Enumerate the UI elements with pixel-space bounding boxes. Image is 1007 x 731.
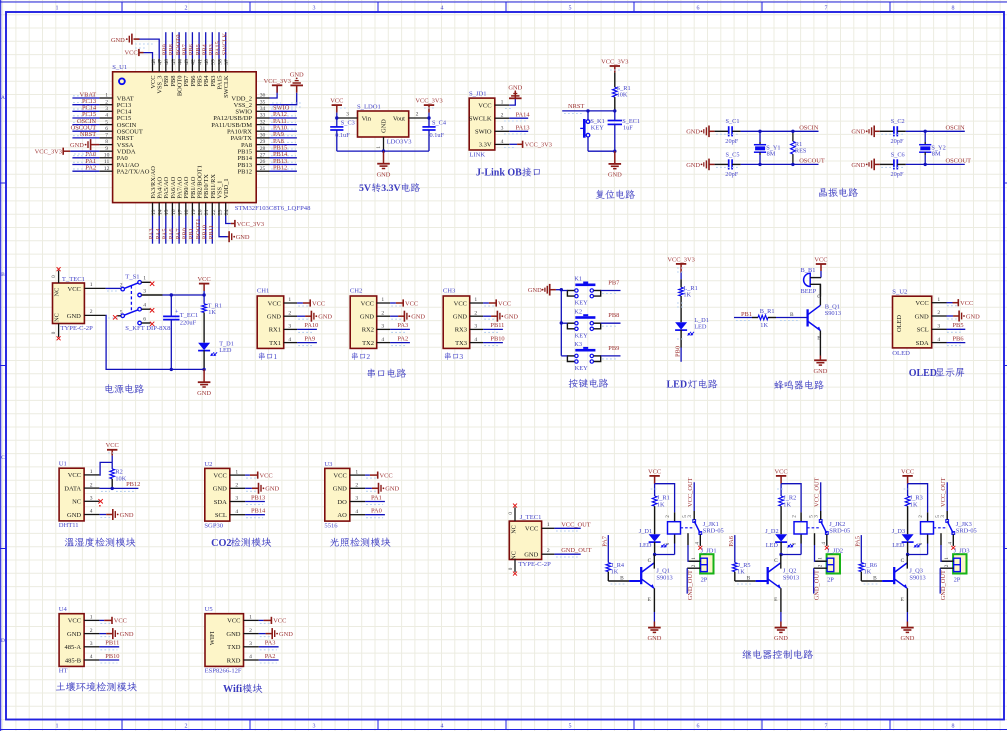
title light sensor module — [330, 538, 391, 547]
power flag VCC at U5 pin 1 — [259, 617, 287, 625]
svg-text:Wifi: Wifi — [223, 684, 242, 695]
wire net PA1 to U1 pin 11 — [72, 162, 99, 164]
svg-text:5V: 5V — [359, 183, 371, 194]
svg-text:VCC: VCC — [124, 50, 137, 57]
ground GND at U1 pin 4 — [99, 509, 133, 520]
svg-text:SDA: SDA — [916, 340, 929, 347]
svg-text:DHT11: DHT11 — [59, 522, 79, 529]
wire J_D3 to coil and collector — [906, 534, 928, 556]
ground GND (S_C2 side) — [851, 126, 879, 138]
svg-text:4: 4 — [948, 542, 954, 545]
svg-text:2: 2 — [249, 628, 252, 634]
svg-text:J_D1: J_D1 — [639, 528, 652, 535]
net label OSCOUT — [71, 125, 97, 132]
net label PB0 — [675, 346, 682, 357]
svg-text:4: 4 — [821, 542, 827, 545]
svg-text:PB12: PB12 — [126, 481, 140, 488]
wire net SWIO from U1 pin 34 — [270, 109, 297, 111]
svg-text:SWIO: SWIO — [475, 129, 492, 136]
svg-text:25: 25 — [260, 166, 266, 172]
svg-text:GND: GND — [774, 635, 788, 642]
svg-text:S_U2: S_U2 — [892, 289, 907, 296]
capacitor S_C2 20pF — [880, 118, 906, 145]
capacitor S_C4 0.1uF — [422, 118, 446, 151]
net label PB9 — [162, 44, 169, 55]
svg-text:GND: GND — [213, 486, 227, 493]
svg-text:2: 2 — [120, 282, 123, 288]
svg-text:14: 14 — [158, 209, 164, 215]
ground GND at S_U2 pin 2 — [947, 311, 981, 322]
svg-text:LINK: LINK — [469, 152, 485, 159]
svg-text:2: 2 — [355, 483, 358, 489]
net label PB5 — [953, 322, 964, 329]
svg-text:GND: GND — [524, 552, 538, 559]
svg-text:RX1: RX1 — [269, 327, 281, 334]
connector CH1 body — [257, 288, 297, 349]
svg-text:485-B: 485-B — [65, 657, 82, 664]
svg-text:1K: 1K — [611, 568, 619, 575]
wire U1 pin1 VCC riser — [99, 462, 112, 475]
svg-text:1: 1 — [376, 146, 382, 149]
svg-text:S_C2: S_C2 — [891, 118, 905, 125]
power flag VCC (LDO input) — [330, 98, 346, 119]
wire net PC14 to U1 pin 3 — [72, 109, 99, 111]
svg-text:27: 27 — [260, 153, 266, 159]
svg-text:VCC: VCC — [478, 102, 491, 109]
svg-text:8: 8 — [952, 6, 955, 12]
svg-text:VCC: VCC — [454, 300, 467, 307]
svg-text:4: 4 — [288, 337, 291, 343]
net label PC15 — [82, 111, 96, 118]
svg-text:2: 2 — [288, 310, 291, 316]
net label OSCOUT — [946, 158, 972, 165]
wire J_R6 to base of J_Q3 — [861, 581, 894, 584]
svg-text:1K: 1K — [657, 501, 665, 508]
svg-text:S_LDO1: S_LDO1 — [357, 104, 381, 111]
svg-text:OLED: OLED — [909, 368, 937, 379]
wire net NRST — [562, 111, 615, 114]
svg-text:S_C6: S_C6 — [891, 151, 905, 158]
svg-text:3: 3 — [381, 324, 384, 330]
net label PA0 — [85, 151, 96, 158]
wire net PA3 from U1 pin 13 — [152, 216, 154, 244]
svg-text:10K: 10K — [115, 475, 126, 482]
svg-text:S_C4: S_C4 — [432, 120, 447, 127]
svg-text:TX3: TX3 — [455, 340, 467, 347]
svg-text:SWCLK: SWCLK — [221, 32, 228, 55]
svg-text:20pF: 20pF — [891, 138, 904, 145]
wire relay J_JK2 pin 5 to J_JD2 — [815, 545, 827, 561]
svg-text:PA2: PA2 — [397, 335, 408, 342]
net label VBAT — [80, 91, 97, 98]
svg-text:GND: GND — [67, 313, 81, 320]
svg-text:1: 1 — [547, 522, 550, 528]
net label PA3 — [148, 228, 155, 239]
svg-text:GND: GND — [267, 314, 281, 321]
capacitor S_C1 20pF — [715, 118, 741, 145]
wire net PA5 (vertical) — [860, 535, 862, 562]
ground GND (below J_Q3) — [900, 612, 914, 642]
svg-text:30: 30 — [260, 133, 266, 139]
svg-text:6: 6 — [143, 316, 146, 322]
pushbutton K3 KEY — [567, 341, 600, 372]
svg-text:PB0: PB0 — [675, 346, 682, 357]
svg-text:VCC: VCC — [960, 300, 973, 307]
svg-text:B_R1: B_R1 — [760, 308, 775, 315]
wire OSCIN — [906, 130, 965, 132]
ground GND at U3 pin 2 — [365, 483, 399, 494]
svg-text:GND: GND — [411, 314, 425, 321]
svg-text:3: 3 — [249, 641, 252, 647]
svg-text:1: 1 — [56, 6, 59, 12]
svg-text:NC: NC — [510, 525, 517, 534]
capacitor S_C6 20pF — [880, 151, 906, 178]
net label PB10 — [490, 335, 504, 342]
svg-text:PA14: PA14 — [516, 111, 531, 118]
resistor R1 RES — [791, 131, 807, 164]
wire net PA10 from U1 pin 31 — [270, 129, 297, 131]
relay J_JK3 SRD-05 — [918, 511, 977, 546]
svg-text:PA10: PA10 — [304, 322, 318, 329]
net label PC13 — [82, 98, 96, 105]
U1 right pins 36-25 — [211, 93, 269, 176]
svg-text:GND: GND — [318, 314, 332, 321]
svg-text:B: B — [1, 272, 5, 278]
transistor J_Q2 S9013 — [747, 555, 800, 613]
wire net GND_OUT (J_JD1 pin 2) — [686, 568, 688, 593]
svg-text:TYPE-C-2P: TYPE-C-2P — [61, 325, 94, 332]
svg-text:1: 1 — [90, 615, 93, 621]
svg-text:6: 6 — [697, 723, 700, 729]
svg-text:4: 4 — [474, 337, 477, 343]
svg-text:PB14: PB14 — [251, 508, 266, 515]
wire net PB13 from U1 pin 26 — [270, 162, 297, 164]
svg-text:VCC_OUT: VCC_OUT — [687, 477, 694, 507]
wire net GND_OUT from J_TEC1 pin 2 — [554, 554, 580, 557]
net label PB11 — [208, 225, 215, 239]
svg-text:2: 2 — [691, 564, 697, 567]
svg-text:S_C1: S_C1 — [726, 118, 740, 125]
transistor J_Q1 S9013 — [620, 555, 673, 613]
ground GND (S_C6 side) — [851, 159, 879, 171]
wire net VCC_OUT from J_TEC1 pin 1 — [554, 528, 580, 531]
LED T_D1 — [198, 340, 234, 369]
wire net PB9 from K3 — [601, 356, 621, 359]
title CO2 module — [211, 538, 271, 549]
net label PA9 — [304, 335, 315, 342]
svg-text:T_TEC1: T_TEC1 — [62, 276, 85, 283]
svg-text:37: 37 — [224, 59, 230, 65]
net label PA7 — [602, 535, 609, 547]
module U5 ESP8266-12F body — [205, 606, 259, 675]
svg-text:3: 3 — [105, 106, 108, 112]
wire LDO ground rail — [337, 150, 429, 152]
svg-text:SWCLK: SWCLK — [469, 116, 492, 123]
svg-text:VCC_3V3: VCC_3V3 — [667, 256, 694, 263]
svg-text:1K: 1K — [864, 568, 872, 575]
capacitor S_C3 0.1uF — [330, 118, 355, 151]
svg-text:U1: U1 — [59, 461, 67, 468]
module U2 SGP30 body — [204, 461, 245, 530]
title power circuit — [105, 384, 144, 393]
net label OSCIN — [946, 124, 966, 131]
svg-text:TYPE-C-2P: TYPE-C-2P — [519, 561, 552, 568]
net label PA9 — [273, 131, 284, 138]
net label PB13 — [251, 494, 265, 501]
wire net PA9 from CH1 pin 4 — [297, 343, 317, 346]
svg-text:S_JD1: S_JD1 — [469, 91, 487, 98]
junction dots reset — [586, 109, 616, 153]
svg-text:4: 4 — [90, 509, 93, 515]
svg-text:47: 47 — [158, 59, 164, 65]
svg-text:GND: GND — [120, 631, 134, 638]
power flag VCC at U1 pin 48 — [124, 49, 152, 59]
label serial port 2 — [352, 352, 371, 361]
svg-text:32: 32 — [260, 119, 266, 125]
wire net PB15 from U1 pin 28 — [270, 149, 297, 151]
svg-text:OSCIN: OSCIN — [946, 124, 966, 131]
svg-text:LDO3V3: LDO3V3 — [387, 139, 413, 146]
wire net SWCLK to U1 pin 37 — [225, 32, 227, 58]
wire net OSCOUT to U1 pin 6 — [72, 129, 99, 131]
svg-text:SDA: SDA — [214, 499, 227, 506]
svg-text:VCC: VCC — [106, 442, 119, 449]
power flag VCC at U3 pin 1 — [365, 472, 393, 480]
svg-text:GND_OUT: GND_OUT — [940, 570, 947, 600]
wire net PB1 to B_R1 — [734, 318, 752, 321]
svg-text:VCC: VCC — [814, 256, 827, 263]
svg-text:5: 5 — [935, 515, 941, 518]
LED L_D1 — [675, 317, 709, 348]
svg-text:4: 4 — [381, 337, 384, 343]
svg-text:TX1: TX1 — [269, 340, 281, 347]
svg-text:3: 3 — [937, 324, 940, 330]
connector J_JD1 2P — [687, 547, 716, 583]
title buzzer circuit — [774, 380, 823, 389]
svg-text:GND: GND — [966, 313, 980, 320]
svg-text:DATA: DATA — [64, 485, 81, 492]
svg-text:D: D — [1, 638, 5, 644]
svg-text:PB8: PB8 — [608, 312, 619, 319]
svg-text:VCC_OUT: VCC_OUT — [561, 521, 591, 528]
svg-text:5: 5 — [682, 515, 688, 518]
svg-text:LED: LED — [694, 323, 707, 330]
svg-text:2: 2 — [381, 310, 384, 316]
power flag VCC_3V3 (LDO output) — [415, 98, 442, 119]
power flag VCC at U2 pin 1 — [245, 472, 273, 480]
wire net BOOT0 to U1 pin 44 — [178, 32, 180, 58]
svg-text:S9013: S9013 — [783, 574, 799, 581]
svg-text:SCL: SCL — [215, 512, 227, 519]
svg-text:ESP8266-12F: ESP8266-12F — [205, 668, 242, 675]
svg-text:GND: GND — [67, 512, 81, 519]
junction dots power rail — [170, 293, 206, 371]
net label VCC_OUT (vertical) — [687, 477, 694, 507]
power flag VCC at S_U2 pin 1 — [947, 299, 974, 307]
svg-text:PA2: PA2 — [85, 165, 96, 172]
net label PB10 — [201, 225, 208, 239]
svg-text:S_C5: S_C5 — [726, 151, 740, 158]
svg-text:34: 34 — [260, 106, 266, 112]
svg-text:PA13: PA13 — [516, 125, 530, 132]
net label PB1 — [188, 228, 195, 239]
wire net PB5 to U1 pin 41 — [198, 32, 200, 58]
svg-text:VCC: VCC — [273, 618, 286, 625]
net label PB6 — [953, 335, 964, 342]
svg-text:NC: NC — [54, 288, 61, 297]
svg-text:1: 1 — [937, 297, 940, 303]
title 5V to 3.3V circuit — [359, 183, 420, 194]
svg-text:WIFI: WIFI — [209, 631, 216, 645]
svg-text:1K: 1K — [208, 309, 216, 316]
svg-text:PB10: PB10 — [105, 653, 119, 660]
resistor B_R1 1K — [752, 308, 776, 329]
wire B_R1 to base — [776, 318, 807, 321]
svg-text:1: 1 — [918, 542, 924, 545]
svg-text:1: 1 — [288, 297, 291, 303]
title J-Link OB port — [476, 168, 540, 179]
wire OSCOUT — [906, 163, 965, 165]
svg-text:PB11: PB11 — [490, 322, 504, 329]
svg-text:GND: GND — [686, 162, 700, 169]
label serial port 3 — [445, 352, 464, 361]
ground GND at U1 pin 35 (VSS_2) — [270, 72, 305, 107]
svg-text:4: 4 — [501, 139, 504, 145]
net label PA8 — [273, 138, 284, 145]
svg-text:PA2: PA2 — [265, 653, 276, 660]
svg-text:HT: HT — [59, 668, 68, 675]
power flag VCC (power circuit) — [198, 276, 211, 304]
svg-text:LED: LED — [639, 542, 652, 549]
svg-text:2: 2 — [185, 6, 188, 12]
svg-text:3: 3 — [313, 6, 316, 12]
svg-text:GND: GND — [197, 390, 211, 397]
wire net PA2 to U1 pin 12 — [72, 169, 99, 171]
wire OSCIN — [741, 130, 819, 132]
svg-text:1K: 1K — [783, 501, 791, 508]
svg-text:3.3V: 3.3V — [381, 183, 400, 194]
svg-text:2: 2 — [90, 309, 93, 315]
svg-text:VCC_OUT: VCC_OUT — [940, 477, 947, 507]
svg-text:GND: GND — [647, 635, 661, 642]
svg-text:20pF: 20pF — [725, 171, 738, 178]
net label PB8 — [168, 44, 175, 55]
svg-text:6: 6 — [697, 6, 700, 12]
svg-text:NRST: NRST — [568, 103, 584, 110]
svg-text:0: 0 — [508, 567, 514, 570]
svg-text:GND: GND — [508, 85, 522, 92]
title relay control circuit — [742, 650, 813, 660]
svg-text:2: 2 — [944, 564, 950, 567]
net label SWCLK — [221, 32, 228, 55]
wire J_R4 to base of J_Q1 — [608, 581, 641, 584]
wire net PA12 from U1 pin 33 — [270, 116, 297, 118]
svg-text:PB7: PB7 — [608, 280, 620, 287]
svg-text:46: 46 — [164, 59, 170, 65]
crystal S_Y2 8M — [919, 131, 946, 164]
wire net PA3 from CH2 pin 3 — [390, 329, 410, 332]
connector CH2 body — [350, 288, 390, 349]
wire net VCC_OUT (relay J_JK3 pin 3) — [946, 482, 948, 511]
power flag VCC at CH2 pin 1 — [390, 299, 418, 307]
net label PA5 — [162, 228, 169, 239]
net label PA10 — [304, 322, 318, 329]
pushbutton K1 KEY — [567, 276, 600, 307]
svg-text:SWCLK: SWCLK — [223, 75, 230, 98]
svg-text:GND: GND — [608, 172, 622, 179]
svg-text:GND: GND — [377, 171, 391, 178]
svg-text:3: 3 — [346, 111, 349, 117]
wire net PB0 from U1 pin 18 — [185, 216, 187, 244]
svg-text:TX2: TX2 — [362, 340, 374, 347]
net label GND_OUT — [561, 547, 591, 554]
power flag VCC at CH3 pin 1 — [483, 299, 511, 307]
svg-text:44: 44 — [177, 59, 183, 65]
svg-text:VCC: VCC — [525, 526, 538, 533]
svg-text:U4: U4 — [59, 606, 68, 613]
ground GND (S_C1 side) — [686, 126, 714, 138]
U1 left pins 1-12 — [99, 93, 149, 176]
svg-text:VCC: VCC — [68, 618, 81, 625]
svg-text:9: 9 — [105, 146, 108, 152]
connector CH3 body — [443, 288, 483, 349]
svg-text:2: 2 — [90, 482, 93, 488]
svg-text:GND: GND — [851, 129, 865, 136]
svg-text:21: 21 — [204, 209, 210, 215]
connector J_TEC1 TYPE-C-2P body — [508, 504, 555, 576]
wire net PB0 below LED — [677, 339, 685, 362]
power flag VCC at CH1 pin 1 — [297, 299, 325, 307]
junction dots LDO — [335, 116, 431, 153]
wire net PA2 from CH2 pin 4 — [390, 343, 410, 346]
ground GND at U1 pin 8 (VSSA) — [70, 139, 99, 150]
svg-text:3: 3 — [355, 496, 358, 502]
svg-text:GND: GND — [226, 631, 240, 638]
svg-text:PA0: PA0 — [371, 508, 382, 515]
wire net OSCIN to U1 pin 5 — [72, 122, 99, 124]
svg-text:8M: 8M — [767, 151, 776, 158]
net label VCC_OUT — [561, 521, 591, 528]
svg-text:OSCIN: OSCIN — [799, 124, 819, 131]
power flag VCC_3V3 (reset) — [601, 58, 628, 87]
wire net PA0 from U3 pin 4 — [365, 515, 385, 518]
net label PB11 — [105, 640, 119, 647]
svg-text:1uF: 1uF — [623, 124, 633, 131]
net label PB14 — [273, 151, 288, 158]
svg-text:GND: GND — [279, 631, 293, 638]
svg-text:1: 1 — [56, 723, 59, 729]
svg-text:B_B1: B_B1 — [801, 267, 816, 274]
svg-text:4: 4 — [105, 113, 108, 119]
wire net PC15 to U1 pin 4 — [72, 116, 99, 118]
net label OSCIN — [799, 124, 819, 131]
svg-text:11: 11 — [104, 159, 110, 165]
wire net PA13 from S_JD1 pin 3 — [504, 131, 528, 134]
net label PA13 — [516, 125, 530, 132]
svg-text:41: 41 — [197, 59, 203, 65]
svg-text:VCC: VCC — [380, 472, 393, 479]
svg-text:KEY: KEY — [575, 365, 589, 372]
title crystal circuit — [819, 188, 858, 197]
svg-text:Vin: Vin — [362, 115, 372, 122]
wire net PB4 to U1 pin 40 — [205, 32, 207, 58]
connector J_JD3 2P — [940, 547, 969, 583]
wire net PB14 from U1 pin 27 — [270, 156, 297, 158]
svg-text:A: A — [1, 95, 5, 101]
wire net PC13 to U1 pin 2 — [72, 103, 99, 105]
net label BOOT0 — [175, 35, 182, 56]
svg-text:GND: GND — [290, 72, 304, 79]
